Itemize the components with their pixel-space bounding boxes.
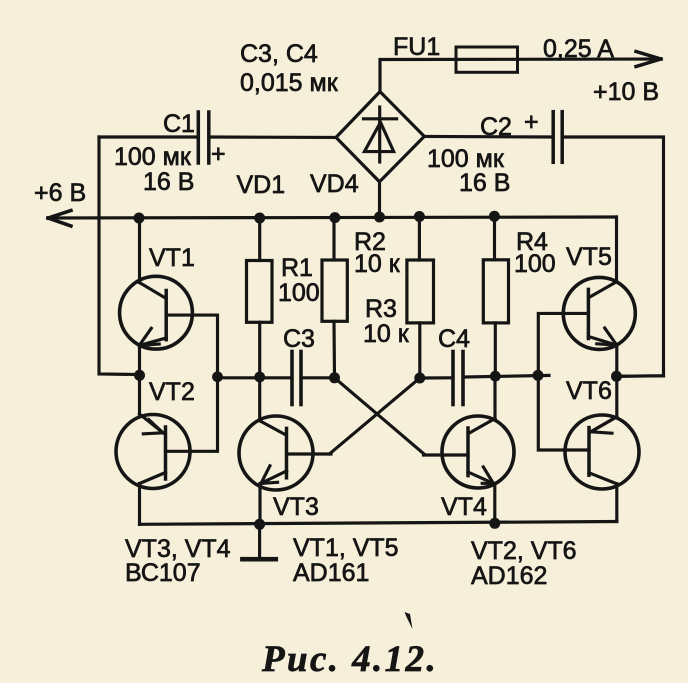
svg-text:+: +	[524, 108, 539, 136]
svg-text:+10 В: +10 В	[593, 78, 659, 106]
svg-text:R3: R3	[365, 295, 397, 323]
svg-text:VT1, VT5: VT1, VT5	[293, 534, 399, 562]
svg-text:+6 В: +6 В	[34, 179, 86, 207]
svg-text:VT1: VT1	[149, 244, 195, 272]
svg-text:VT3: VT3	[273, 493, 319, 521]
svg-text:100: 100	[278, 279, 320, 307]
svg-text:0,25 A: 0,25 A	[543, 35, 614, 63]
svg-text:C1: C1	[163, 110, 195, 138]
svg-text:C3, C4: C3, C4	[240, 40, 318, 68]
svg-text:AD161: AD161	[293, 559, 369, 587]
svg-text:10 к: 10 к	[363, 320, 410, 348]
svg-text:ВС107: ВС107	[125, 559, 201, 587]
svg-text:R1: R1	[281, 254, 313, 282]
svg-text:VT6: VT6	[566, 377, 612, 405]
svg-text:FU1: FU1	[393, 33, 440, 61]
svg-text:16 В: 16 В	[459, 169, 510, 197]
svg-text:C4: C4	[438, 325, 470, 353]
svg-text:C2: C2	[480, 113, 512, 141]
svg-text:VT5: VT5	[566, 243, 612, 271]
svg-text:+: +	[211, 140, 226, 168]
svg-text:16 В: 16 В	[143, 168, 194, 196]
svg-text:VD1: VD1	[237, 171, 286, 199]
svg-text:100 мк: 100 мк	[114, 143, 192, 171]
svg-text:Рис. 4.12.: Рис. 4.12.	[261, 639, 438, 680]
svg-text:VT4: VT4	[441, 493, 487, 521]
svg-text:VD4: VD4	[310, 170, 359, 198]
svg-text:VT2, VT6: VT2, VT6	[471, 537, 577, 565]
svg-text:100: 100	[514, 250, 556, 278]
svg-text:C3: C3	[283, 325, 315, 353]
svg-text:AD162: AD162	[471, 562, 547, 590]
svg-text:10 к: 10 к	[354, 250, 401, 278]
svg-text:0,015 мк: 0,015 мк	[240, 69, 339, 97]
svg-text:VT2: VT2	[149, 378, 195, 406]
